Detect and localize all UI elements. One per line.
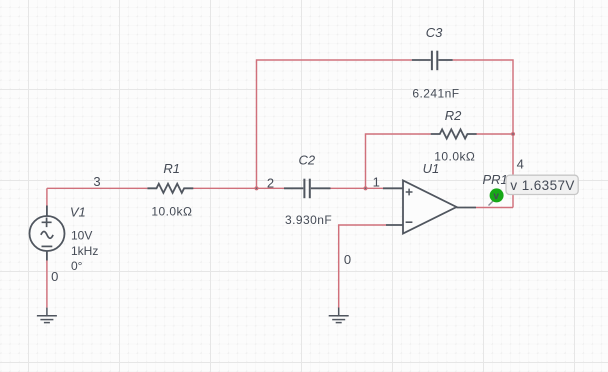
svg-text:R1: R1 bbox=[163, 161, 180, 176]
capacitor C3 bbox=[412, 51, 453, 70]
node 2 junction bbox=[254, 186, 258, 190]
wire: R2 right to right rail bbox=[476, 133, 513, 135]
wire: V1 bottom to ground bbox=[46, 261, 48, 308]
op-amp U1 bbox=[383, 181, 476, 234]
svg-text:10.0kΩ: 10.0kΩ bbox=[434, 150, 475, 164]
resistor R1 bbox=[147, 184, 193, 193]
svg-text:v 1.6357V: v 1.6357V bbox=[510, 178, 574, 193]
svg-text:4: 4 bbox=[517, 157, 524, 172]
svg-text:10V: 10V bbox=[71, 229, 92, 243]
svg-text:C3: C3 bbox=[426, 25, 443, 40]
wire: node 2 up and across to C3 bbox=[257, 60, 412, 188]
svg-text:0°: 0° bbox=[71, 259, 83, 273]
svg-text:10.0kΩ: 10.0kΩ bbox=[151, 205, 192, 219]
node 4 junction bbox=[511, 132, 515, 136]
svg-text:0: 0 bbox=[344, 252, 351, 267]
svg-text:1kHz: 1kHz bbox=[71, 244, 98, 258]
wire: node 1 up to R2 left bbox=[366, 134, 431, 188]
voltage source V1 bbox=[30, 206, 65, 261]
svg-text:1: 1 bbox=[373, 175, 380, 190]
resistor R2 bbox=[431, 129, 477, 138]
svg-text:2: 2 bbox=[267, 176, 274, 191]
ground (left) bbox=[37, 308, 57, 323]
node 1 junction bbox=[363, 186, 367, 190]
svg-text:v: v bbox=[493, 191, 499, 202]
svg-text:R2: R2 bbox=[445, 108, 462, 123]
svg-text:0: 0 bbox=[51, 269, 58, 284]
probe value box bbox=[506, 175, 578, 194]
wire: R1 right to node 2 bbox=[192, 187, 284, 189]
svg-text:PR1: PR1 bbox=[483, 172, 508, 187]
probe PR1 green dot bbox=[490, 188, 504, 202]
wire: minus input to ground drop bbox=[339, 225, 386, 308]
svg-text:6.241nF: 6.241nF bbox=[412, 87, 459, 101]
svg-text:3: 3 bbox=[93, 174, 100, 189]
svg-text:V1: V1 bbox=[70, 204, 86, 219]
wire: C2 right to node 1 bbox=[331, 187, 384, 189]
ground (mid) bbox=[329, 308, 349, 323]
svg-text:U1: U1 bbox=[423, 161, 440, 176]
wire: V1 top vertical bbox=[46, 188, 48, 205]
wire: main horizontal node 3 bbox=[47, 187, 147, 189]
svg-text:C2: C2 bbox=[299, 153, 316, 168]
capacitor C2 bbox=[284, 179, 331, 199]
wire: C3 right then down right rail bbox=[453, 60, 513, 208]
wire: op-amp output to right rail bbox=[476, 207, 513, 209]
svg-text:3.930nF: 3.930nF bbox=[285, 213, 332, 227]
probe PR1 leader bbox=[489, 200, 495, 206]
